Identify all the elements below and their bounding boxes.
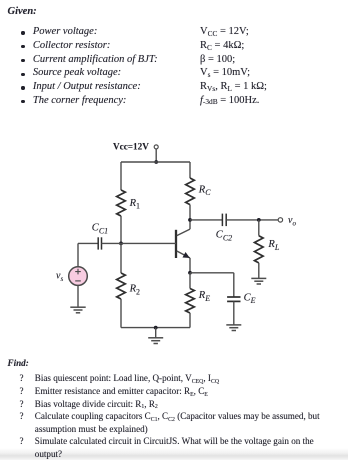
wire emitter to CE	[190, 272, 234, 274]
capacitor CE	[227, 297, 240, 301]
bottom gray band	[0, 448, 348, 460]
wire Vcc stem	[155, 149, 157, 162]
wire top rail	[121, 161, 190, 163]
resistor R2	[117, 273, 126, 299]
ground RL	[251, 278, 266, 284]
capacitor CC2	[222, 214, 226, 227]
wire RC top	[189, 162, 191, 178]
right column values	[200, 27, 249, 38]
svg-text:R1: R1	[129, 198, 140, 211]
wire vs top	[77, 243, 79, 266]
svg-text:vo: vo	[288, 215, 296, 228]
resistor RC	[186, 178, 195, 205]
svg-text:RL: RL	[267, 239, 279, 252]
wire CC1 to base node	[102, 242, 122, 244]
wire CE bottom	[233, 301, 235, 325]
svg-text:vs: vs	[56, 271, 63, 284]
wire R1 top	[120, 162, 122, 190]
Find heading	[8, 359, 29, 368]
svg-text:CE: CE	[244, 292, 256, 305]
wire RE bottom	[189, 313, 191, 328]
node Vcc rail junction	[154, 160, 158, 164]
wire base node to R2	[120, 243, 122, 273]
svg-text:Vcc=12V: Vcc=12V	[113, 141, 149, 151]
node output junction	[257, 218, 261, 222]
svg-text:RE: RE	[198, 290, 210, 303]
find list	[20, 374, 24, 383]
wire RL bottom	[258, 263, 260, 279]
wire CE top	[233, 273, 235, 297]
wire RL top	[258, 220, 260, 236]
wire base	[121, 242, 176, 244]
Given heading	[8, 7, 37, 18]
resistor RL	[254, 236, 263, 263]
wire R1 bottom to base node	[120, 216, 122, 243]
Vcc terminal	[154, 145, 158, 149]
wire bottom rail	[121, 327, 190, 329]
capacitor CC1	[98, 237, 101, 249]
ground CE	[226, 325, 241, 331]
svg-text:CC2: CC2	[216, 230, 232, 243]
wire emitter to RE	[189, 273, 191, 289]
wire vs to CC1	[78, 242, 98, 244]
svg-text:R2: R2	[129, 284, 140, 297]
resistor R1	[117, 190, 126, 216]
wire emitter	[189, 258, 191, 273]
source vs	[69, 267, 88, 286]
node base junction	[119, 242, 123, 246]
svg-text:CC1: CC1	[92, 223, 108, 236]
bullet list left column	[21, 31, 24, 34]
node bottom rail junction	[154, 326, 158, 330]
transistor Q1	[176, 229, 190, 258]
node emitter junction	[188, 271, 192, 275]
node collector junction	[188, 218, 192, 222]
output terminal	[278, 218, 282, 222]
wire collector to CC2	[190, 219, 222, 221]
wire R2 bottom	[120, 299, 122, 328]
wire vs bottom	[77, 285, 79, 307]
resistor RE	[186, 289, 195, 313]
wire RC bottom to collector	[189, 205, 191, 230]
ground vs	[70, 307, 85, 313]
svg-text:RC: RC	[198, 184, 211, 197]
ground center	[148, 328, 163, 344]
wire CC2 to output	[226, 219, 278, 221]
